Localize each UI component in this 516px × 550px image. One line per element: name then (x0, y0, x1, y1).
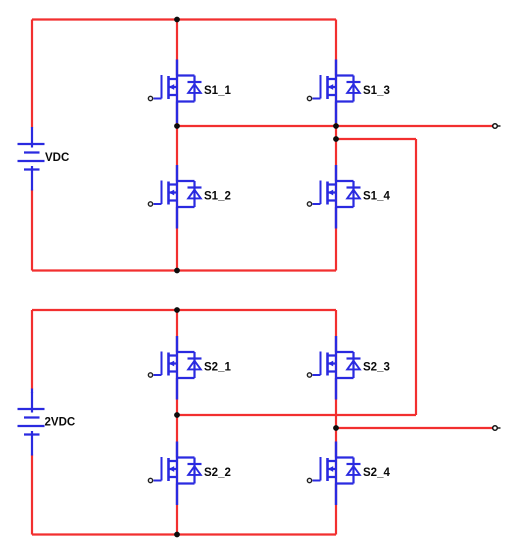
svg-text:S2_2: S2_2 (204, 467, 231, 479)
svg-text:S1_4: S1_4 (363, 191, 390, 203)
svg-text:VDC: VDC (45, 152, 69, 164)
svg-text:S2_4: S2_4 (363, 467, 390, 479)
svg-text:S1_2: S1_2 (204, 191, 231, 203)
svg-text:2VDC: 2VDC (45, 417, 76, 429)
svg-text:S1_3: S1_3 (363, 85, 390, 97)
svg-text:S1_1: S1_1 (204, 85, 231, 97)
svg-text:S2_1: S2_1 (204, 362, 231, 374)
svg-text:S2_3: S2_3 (363, 362, 390, 374)
